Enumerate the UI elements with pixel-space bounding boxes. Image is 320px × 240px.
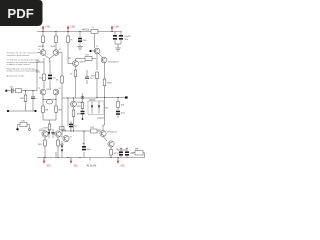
transistor Q6b bbox=[101, 57, 119, 63]
svg-text:-35v: -35v bbox=[120, 164, 125, 167]
node +40.0v label bbox=[79, 28, 89, 32]
resistor R11 bbox=[55, 95, 62, 113]
wire cap join to ground bbox=[115, 44, 121, 48]
svg-text:all other resistors are 0.25w: all other resistors are 0.25w metal film… bbox=[7, 70, 39, 73]
ground chassis blob bbox=[16, 128, 18, 130]
input terminal J1 bbox=[5, 90, 11, 92]
transistor Q12 bbox=[71, 101, 83, 107]
transistor Q2 bbox=[53, 50, 59, 56]
wire ground bus bbox=[7, 110, 37, 112]
capacitor C1 bbox=[10, 87, 16, 94]
junction dots bottom rail bbox=[44, 157, 118, 158]
transistor Q11 bbox=[108, 141, 114, 147]
wire input to Q1 base bbox=[37, 53, 40, 91]
svg-text:10R: 10R bbox=[121, 105, 125, 107]
svg-text:22K: 22K bbox=[20, 98, 24, 100]
resistor R26 emitter bbox=[38, 137, 46, 157]
capacitor C2 bbox=[31, 91, 38, 111]
transistor Q9 bbox=[63, 135, 72, 141]
supply arrow -35V left bbox=[43, 158, 52, 168]
svg-text:T1: T1 bbox=[38, 49, 40, 51]
fuse F1 bbox=[91, 27, 98, 33]
supply arrow +35V left bbox=[42, 25, 51, 31]
wire +V top rail bbox=[37, 31, 122, 33]
wire -V bottom rail bbox=[37, 157, 145, 159]
resistor R19 bbox=[77, 103, 84, 109]
capacitor C8 bbox=[51, 129, 54, 138]
svg-text:1N4148: 1N4148 bbox=[89, 99, 95, 101]
supply arrow +35V middle bbox=[67, 25, 76, 31]
transistor Q4 bbox=[53, 89, 59, 95]
resistor R24 bbox=[91, 127, 98, 133]
wire VAS column bbox=[104, 63, 106, 98]
capacitor C15 bbox=[81, 109, 85, 120]
wire Q5 connections bbox=[68, 58, 96, 70]
svg-text:PDF: PDF bbox=[7, 6, 33, 21]
svg-text:0R22: 0R22 bbox=[38, 144, 42, 146]
svg-text:100R: 100R bbox=[107, 83, 112, 85]
transistor Q5 bbox=[73, 61, 87, 67]
svg-text:R40: R40 bbox=[105, 108, 108, 110]
wire 6R8 box leads bbox=[132, 153, 145, 158]
transistor Q1 bbox=[40, 50, 46, 56]
svg-text:R15: R15 bbox=[86, 55, 89, 57]
svg-text:2SC5200 etc: 2SC5200 etc bbox=[107, 131, 117, 134]
junction dots top rail bbox=[42, 31, 112, 32]
svg-text:T3: T3 bbox=[38, 88, 40, 90]
PDF badge bbox=[0, 0, 43, 26]
capacitor C13 bbox=[119, 148, 123, 158]
label -41.6v bottom bbox=[86, 158, 97, 168]
svg-text:47u: 47u bbox=[74, 126, 77, 128]
resistor R14 bbox=[56, 76, 63, 83]
supply arrow -35V right bbox=[117, 158, 126, 168]
wire fuse column bbox=[95, 34, 103, 71]
transistor Q8 bbox=[55, 130, 67, 137]
svg-text:T8: T8 bbox=[61, 137, 63, 139]
svg-text:220R: 220R bbox=[51, 46, 56, 48]
svg-text:100u: 100u bbox=[87, 149, 91, 151]
resistor R27 emitter bbox=[57, 137, 65, 157]
transistor Q7 bbox=[39, 130, 48, 137]
trimmer VR1 bbox=[42, 99, 56, 104]
terminal blob Q6 emitter bbox=[89, 50, 95, 52]
svg-text:F1: F1 bbox=[92, 27, 94, 29]
capacitor C5 bbox=[48, 61, 56, 89]
resistor R6 feedback bbox=[39, 58, 45, 89]
svg-text:+35v: +35v bbox=[114, 25, 120, 28]
output terminal blob bbox=[125, 96, 128, 98]
svg-text:+35v: +35v bbox=[45, 25, 51, 28]
resistor R16 bbox=[91, 72, 98, 98]
capacitor C12 bbox=[119, 32, 131, 45]
resistor R3 bbox=[39, 32, 45, 50]
ground mid top bbox=[77, 47, 83, 50]
svg-text:T10: T10 bbox=[98, 130, 101, 132]
svg-text:-41.6v 0V: -41.6v 0V bbox=[86, 164, 97, 167]
resistor R13 small box bbox=[60, 127, 65, 130]
svg-text:47u: 47u bbox=[36, 70, 39, 72]
wire base stubs bbox=[37, 52, 62, 54]
resistor R30 bbox=[110, 150, 113, 156]
svg-text:-35v: -35v bbox=[73, 164, 78, 167]
svg-text:T9: T9 bbox=[70, 137, 72, 139]
resistor R20 zobel bbox=[117, 98, 125, 108]
svg-text:560R: 560R bbox=[44, 128, 49, 130]
svg-text:BD139: BD139 bbox=[80, 62, 87, 64]
svg-text:100u: 100u bbox=[83, 40, 87, 42]
resistor R2 bbox=[20, 91, 27, 111]
resistor R1 bbox=[16, 89, 38, 93]
bias network box bbox=[88, 99, 108, 114]
svg-text:mounted on small heatsinks.: mounted on small heatsinks. bbox=[7, 54, 31, 57]
capacitor C11 bbox=[113, 32, 117, 45]
ground top right bbox=[115, 48, 121, 51]
terminal open circle bbox=[28, 128, 30, 130]
svg-text:56R: 56R bbox=[91, 76, 95, 78]
wire diff pair tail bbox=[45, 55, 54, 62]
svg-text:+35v: +35v bbox=[70, 25, 76, 28]
svg-text:680R: 680R bbox=[47, 89, 52, 91]
svg-text:is added to a larger heatsink.: is added to a larger heatsink. bbox=[7, 63, 31, 66]
wire mirror join bbox=[43, 113, 56, 125]
svg-text:R24: R24 bbox=[91, 127, 94, 129]
wire caps top join bbox=[117, 148, 127, 150]
resistor R12 bbox=[48, 124, 51, 134]
capacitor C10 bbox=[82, 142, 91, 158]
svg-text:6R8: 6R8 bbox=[135, 149, 138, 151]
capacitor C14 bbox=[125, 148, 135, 158]
diode D6 bbox=[61, 141, 63, 158]
capacitor C7 bbox=[81, 93, 84, 103]
svg-text:22n: 22n bbox=[90, 78, 93, 80]
resistor R10 bbox=[70, 70, 77, 98]
wire driver bus bbox=[62, 131, 100, 142]
svg-text:T4: T4 bbox=[59, 88, 61, 90]
output bus bbox=[97, 97, 126, 98]
supply arrow +35V right bbox=[111, 25, 120, 31]
resistor R31 box bbox=[135, 149, 143, 156]
resistor R4 bbox=[51, 32, 58, 50]
resistor R15 horizontal bbox=[85, 57, 92, 61]
wire lower mid bbox=[62, 98, 68, 141]
svg-text:+40.0v: +40.0v bbox=[82, 28, 90, 31]
svg-text:T5: T5 bbox=[96, 46, 98, 48]
wire feedback stubs left bbox=[36, 62, 44, 72]
capacitor C4 decoupling bbox=[78, 32, 87, 47]
transistor Q3 bbox=[40, 89, 46, 95]
diode D5 bottom bbox=[55, 152, 57, 158]
resistor R9 bbox=[67, 32, 73, 59]
svg-text:2SC5200 etc: 2SC5200 etc bbox=[108, 61, 119, 64]
svg-text:All capacitors are 63v.: All capacitors are 63v. bbox=[7, 74, 25, 77]
svg-text:100n: 100n bbox=[121, 113, 125, 115]
wire mid cross bbox=[62, 53, 97, 99]
transistor Q6 bbox=[94, 46, 100, 54]
svg-text:680R: 680R bbox=[39, 46, 44, 48]
resistor R17 bbox=[103, 79, 112, 86]
notes text block bbox=[7, 52, 39, 78]
capacitor C9 zobel bbox=[116, 108, 125, 119]
capacitor C6 bbox=[85, 70, 93, 84]
junction dots bus bbox=[67, 97, 97, 99]
svg-text:T7: T7 bbox=[41, 129, 43, 131]
resistor R8 bbox=[42, 95, 49, 113]
svg-text:T2: T2 bbox=[59, 49, 61, 51]
junction dots driver bus bbox=[70, 130, 84, 131]
svg-text:/35v: /35v bbox=[125, 39, 129, 41]
svg-text:0R22 5W: 0R22 5W bbox=[114, 153, 122, 155]
transistor Q10 bbox=[100, 130, 118, 136]
capacitor C16 bbox=[69, 121, 77, 131]
resistor R22 bbox=[72, 98, 80, 131]
supply arrow -35V middle bbox=[70, 158, 79, 168]
diode D3 bbox=[48, 129, 50, 138]
resistor R7 ground lift bbox=[18, 121, 30, 129]
svg-text:-35v: -35v bbox=[46, 164, 51, 167]
wire right output column bbox=[97, 98, 111, 158]
svg-text:63v/35: 63v/35 bbox=[125, 36, 132, 38]
